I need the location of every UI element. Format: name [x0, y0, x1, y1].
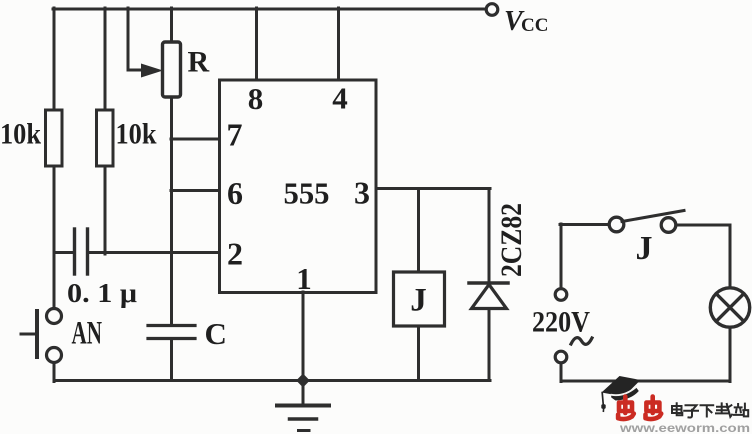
svg-text:C: C: [205, 316, 227, 351]
svg-text:4: 4: [332, 81, 348, 116]
wire: lamp branch upper: [729, 225, 732, 288]
svg-text:8: 8: [248, 81, 264, 116]
wire: cap right plate to pin 2: [89, 251, 219, 254]
potentiometer R: [163, 42, 181, 97]
terminal: 220V bottom: [555, 351, 567, 363]
wire: pin 6 link: [171, 189, 219, 192]
wire: left rail lower: [53, 364, 56, 382]
switch J blade: [622, 211, 684, 222]
wire: bottom rail: [54, 379, 490, 382]
wire: cap C to bottom rail: [170, 339, 173, 380]
wire: left rail mid: [53, 166, 56, 308]
wire: pin 4: [337, 8, 340, 80]
wire: diode branch upper: [488, 189, 491, 283]
svg-text:7: 7: [227, 117, 243, 153]
wire: left rail upper: [53, 8, 56, 110]
wire: wiper branch: [128, 8, 142, 70]
wire: mains loop bottom rail: [561, 380, 730, 383]
wire: lamp branch lower: [729, 327, 732, 382]
wire: second branch upper: [104, 8, 107, 110]
svg-text:2: 2: [227, 236, 243, 272]
svg-text:2CZ82: 2CZ82: [495, 203, 528, 277]
logo: chongchong red characters: [618, 397, 661, 420]
wire: pin 1: [302, 292, 305, 380]
svg-text:R: R: [188, 46, 210, 79]
wire: node A to cap left plate: [54, 251, 73, 254]
resistor R2 10k: [97, 110, 114, 166]
capacitor 0.1u: [75, 229, 88, 274]
svg-text:CC: CC: [521, 15, 548, 36]
label Vcc: [504, 6, 548, 37]
svg-text:0. 1 μ: 0. 1 μ: [67, 278, 137, 308]
wire: pin 3 output: [376, 187, 490, 190]
wire: Vcc top rail: [53, 8, 489, 11]
wire: mains loop left vertical upper: [560, 224, 563, 287]
push button AN: [21, 309, 62, 363]
logo: site name characters: [672, 403, 748, 417]
wire: pot top: [170, 8, 173, 42]
wire: pot bottom down to capacitor C: [170, 97, 173, 325]
op-amp U1: 555 timer box: [220, 80, 377, 293]
relay J coil: [394, 272, 445, 326]
resistor R1 10k: [46, 110, 63, 166]
capacitor C: [148, 326, 195, 339]
switch J contact right: [661, 218, 676, 233]
diode VD 2CZ82: [469, 283, 508, 309]
terminal: 220V top: [555, 289, 567, 301]
svg-text:220V: 220V: [532, 306, 590, 339]
wire: mains loop top right segment: [677, 224, 731, 227]
wire: mains loop left vertical lower: [560, 364, 563, 382]
label ~: [571, 338, 592, 345]
svg-text:6: 6: [227, 175, 243, 211]
wire: mains loop top left segment: [560, 223, 609, 226]
wire: diode branch lower: [488, 309, 491, 381]
wire: second branch lower: [104, 166, 107, 254]
switch J contact left: [609, 217, 624, 232]
wire: pin 8: [255, 8, 258, 80]
ground: [277, 381, 329, 431]
wire: pin 7 link: [171, 138, 219, 141]
junction: ground node: [296, 374, 310, 388]
svg-text:10k: 10k: [116, 118, 157, 151]
svg-text:AN: AN: [72, 316, 103, 352]
wiper arrow: [141, 64, 163, 78]
svg-text:3: 3: [354, 175, 370, 211]
wire: relay branch upper: [417, 189, 420, 273]
svg-text:J: J: [410, 283, 427, 319]
lamp: [710, 288, 749, 327]
svg-text:10k: 10k: [0, 118, 41, 151]
terminal Vcc: [486, 4, 498, 16]
logo: graduation cap: [601, 376, 640, 411]
svg-text:www.eeworm.com: www.eeworm.com: [619, 423, 750, 434]
svg-text:J: J: [636, 230, 653, 267]
svg-text:555: 555: [284, 176, 330, 211]
wire: relay branch lower: [417, 326, 420, 380]
